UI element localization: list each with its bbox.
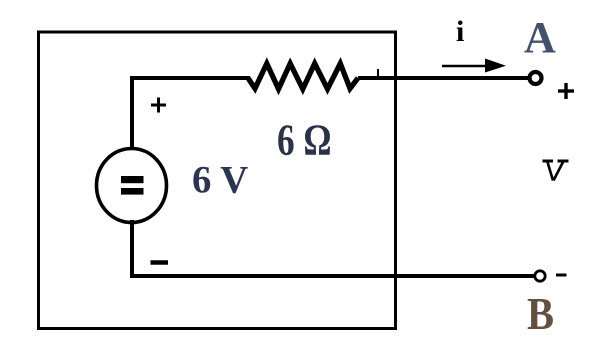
wire: resistor to terminal A	[358, 76, 529, 80]
polarity + at source top	[151, 98, 166, 113]
terminal A ring	[530, 72, 542, 84]
wire: source bottom to terminal B	[132, 220, 534, 276]
svg-text:6 Ω: 6 Ω	[277, 115, 332, 165]
wire: source top to resistor	[132, 78, 250, 150]
voltage source V1	[97, 149, 167, 223]
terminal B ring	[535, 271, 545, 281]
current arrow i	[442, 65, 490, 68]
svg-text:B: B	[527, 290, 554, 339]
svg-text:i: i	[456, 15, 464, 48]
plus sign at terminal A	[558, 83, 574, 99]
polarity - at source bottom	[151, 260, 169, 265]
voltage label V	[543, 161, 569, 181]
voltage source symbol bar 1	[121, 176, 144, 183]
pin tick on top wire	[377, 69, 379, 76]
network boundary box	[39, 32, 396, 329]
minus sign at terminal B	[556, 274, 567, 277]
svg-text:6 V: 6 V	[192, 158, 248, 201]
resistor R zigzag	[248, 64, 358, 90]
svg-text:A: A	[524, 13, 556, 62]
voltage source symbol bar 2	[121, 188, 144, 195]
